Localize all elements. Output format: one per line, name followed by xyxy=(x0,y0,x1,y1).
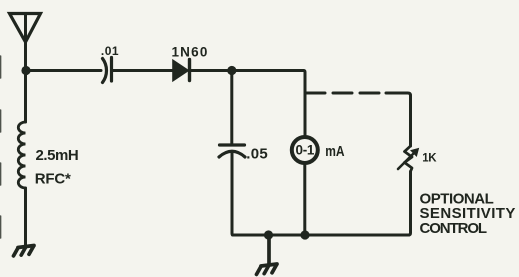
svg-text:CONTROL: CONTROL xyxy=(420,220,487,237)
svg-text:RFC*: RFC* xyxy=(35,171,71,188)
node A junction dot xyxy=(21,66,30,75)
svg-text:.05: .05 xyxy=(246,146,268,163)
wire dashed link to sensitivity control xyxy=(306,92,386,95)
inductor L1 2.5mH RFC xyxy=(18,122,25,188)
svg-text:mA: mA xyxy=(325,143,345,160)
wire D1 to corner xyxy=(189,69,304,72)
svg-text:0-1: 0-1 xyxy=(295,143,314,158)
ground (bottom middle) xyxy=(257,235,278,274)
wire R1 to bottom rail xyxy=(409,172,411,236)
wire antenna junction to C1 xyxy=(26,69,101,72)
ground (bottom left) xyxy=(14,246,35,256)
svg-text:1N60: 1N60 xyxy=(171,45,208,60)
wire node B down to C2 xyxy=(230,71,233,145)
wire bottom rail xyxy=(233,234,410,237)
meter M1 xyxy=(292,137,318,231)
node B junction dot xyxy=(227,66,236,75)
diode D1 1N60 xyxy=(173,60,189,81)
wire C1 to D1 xyxy=(112,69,174,72)
antenna xyxy=(10,14,41,69)
capacitor C2 .05 xyxy=(219,145,245,157)
capacitor C1 .01 xyxy=(103,58,112,83)
wire corner down to meter xyxy=(304,71,306,137)
node D meter bottom dot xyxy=(300,230,309,239)
svg-text:1K: 1K xyxy=(422,152,437,164)
note text optional sensitivity control xyxy=(420,191,516,237)
wire junction down to L1 xyxy=(24,71,27,123)
resistor R1 1K variable xyxy=(398,146,419,172)
wire C2 down to bottom rail xyxy=(232,154,234,236)
scan artifacts left edge xyxy=(0,56,2,238)
wire dashed corner segment xyxy=(386,93,411,146)
node C ground tap dot xyxy=(264,230,273,239)
svg-text:2.5mH: 2.5mH xyxy=(36,147,79,164)
svg-text:.01: .01 xyxy=(101,44,119,58)
wire L1 to ground xyxy=(24,188,27,245)
